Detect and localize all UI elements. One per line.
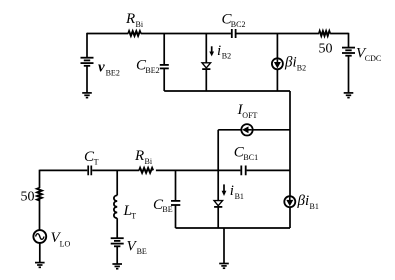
svg-text:BE: BE [137, 247, 147, 256]
ground under V_LO [35, 263, 45, 268]
svg-text:BE: BE [162, 205, 172, 214]
battery V_CDC [342, 48, 355, 56]
resistor R_Bi bottom (zigzag) [139, 168, 153, 173]
svg-text:50: 50 [319, 42, 333, 57]
wire V_LO to ground [39, 243, 41, 262]
wire I_OFT left vertical [217, 130, 219, 171]
battery v_BE2 [81, 58, 94, 66]
resistor R_Bi top (zigzag) [128, 31, 141, 36]
wire C_BE2 branch lower [163, 68, 165, 91]
svg-text:Bi: Bi [145, 157, 153, 166]
wire bottom rail of top circuit [164, 90, 290, 92]
wire C_BE1 branch lower [175, 205, 177, 228]
svg-text:i: i [230, 183, 234, 199]
wire bottom rail right of C_BC1 [247, 169, 290, 171]
current source I_OFT [241, 124, 252, 135]
wire diode2 branch lower [217, 207, 219, 228]
wire diode1 branch upper [205, 34, 207, 63]
svg-text:B1: B1 [235, 192, 244, 201]
arrow i_B2 current indicator [209, 46, 214, 56]
wire L_T branch upper [116, 170, 118, 195]
wire diode1 branch lower [205, 69, 207, 91]
wire right vertical bus [289, 91, 291, 228]
label V_BE [127, 239, 147, 257]
svg-text:βi: βi [297, 193, 310, 209]
svg-text:BC1: BC1 [243, 153, 258, 162]
wire v_BE2 branch lower [86, 66, 88, 93]
label beta-i_B2 [284, 55, 306, 73]
wire V_CDC branch lower [348, 56, 350, 93]
wire top rail to V_CDC [330, 33, 348, 35]
wire top rail left segment [87, 33, 128, 35]
label C_BC1 [234, 145, 258, 163]
label v_BE2 [98, 59, 120, 77]
inductor L_T [114, 195, 117, 218]
svg-text:BC2: BC2 [231, 20, 246, 29]
label V_CDC [356, 45, 381, 63]
battery V_BE [111, 238, 124, 246]
label I_OFT [237, 102, 258, 120]
label C_BE1 [153, 197, 173, 214]
label R_Bi (bottom) [134, 148, 153, 166]
ground under bottom rail [219, 264, 229, 269]
wire top rail right of C_BC2 [237, 33, 320, 35]
svg-text:B2: B2 [222, 52, 231, 61]
label C_BC2 [222, 12, 246, 29]
wire L_T to V_BE [116, 218, 118, 238]
svg-text:v: v [98, 59, 105, 75]
wire C_BE2 branch upper [163, 34, 165, 65]
resistor 50 bottom (vertical zigzag) [37, 188, 42, 201]
capacitor C_BE2 plates [160, 65, 169, 69]
ground under v_BE2 [82, 93, 92, 98]
source V_LO (sine) [33, 230, 46, 243]
svg-text:i: i [217, 43, 221, 59]
resistor 50 top (zigzag) [319, 31, 330, 36]
diode D1 (i_B1) [214, 201, 223, 207]
wire I_OFT row [218, 129, 290, 131]
svg-text:CDC: CDC [365, 54, 381, 63]
svg-text:OFT: OFT [242, 111, 257, 120]
svg-text:50: 50 [21, 189, 35, 204]
capacitor C_T plates [88, 166, 91, 176]
svg-text:Bi: Bi [136, 20, 144, 29]
svg-text:βi: βi [284, 55, 297, 71]
wire top rail middle segment [141, 33, 231, 35]
wire V_BE to ground [116, 246, 118, 263]
label C_BE2 [136, 58, 160, 76]
arrow i_B1 current indicator [222, 184, 227, 196]
ground under V_CDC [344, 93, 354, 98]
wire between 50 and V_LO [39, 200, 41, 231]
wire bottom rail between R_Bi and C_BC1 [156, 169, 241, 171]
current source beta-i_B1 [284, 196, 295, 207]
label beta-i_B1 [297, 193, 319, 211]
svg-text:T: T [94, 158, 99, 167]
diode D2 (i_B2) [202, 63, 211, 69]
wire V_CDC branch upper [348, 33, 350, 47]
wire beta-i_B2 branch lower [276, 69, 278, 91]
svg-text:BE2: BE2 [145, 66, 159, 75]
label L_T [123, 203, 137, 220]
wire v_BE2 branch upper [86, 33, 88, 57]
wire C_BE1 branch upper [175, 170, 177, 200]
wire bottom rail of bottom circuit [176, 227, 291, 229]
wire bottom circuit top rail: left of C_T [40, 169, 88, 171]
svg-text:B1: B1 [310, 202, 319, 211]
svg-text:B2: B2 [297, 64, 306, 73]
label C_T [84, 149, 99, 167]
wire diode2 branch upper [217, 170, 219, 200]
wire bottom rail between C_T and R_Bi [92, 169, 139, 171]
svg-text:T: T [131, 211, 136, 220]
label V_LO [51, 230, 71, 249]
svg-text:R: R [125, 11, 135, 27]
wire beta-i_B2 branch upper [276, 34, 278, 59]
wire 50/V_LO branch upper [39, 170, 41, 188]
svg-text:LO: LO [60, 240, 71, 249]
capacitor C_BC1 plates [241, 166, 245, 176]
capacitor C_BE1 plates [171, 201, 180, 205]
capacitor C_BC2 plates [232, 29, 236, 38]
label i_B2 [217, 43, 231, 61]
current source beta-i_B2 [272, 58, 283, 69]
label i_B1 [230, 183, 244, 201]
wire ground stem [223, 228, 225, 263]
label R_Bi (top) [125, 11, 144, 29]
ground under V_BE [112, 264, 122, 269]
svg-text:BE2: BE2 [106, 69, 120, 78]
svg-text:R: R [134, 148, 144, 164]
